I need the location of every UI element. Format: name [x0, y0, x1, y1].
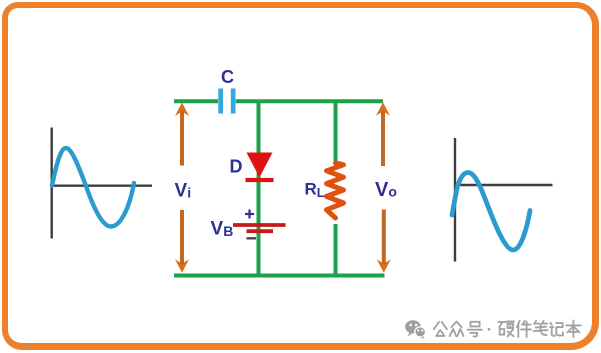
output waveform axes — [454, 138, 553, 262]
svg-text:Vi: Vi — [175, 181, 192, 202]
arrow Vo down — [377, 210, 391, 273]
watermark text — [434, 320, 581, 337]
svg-text:VB: VB — [211, 218, 234, 239]
watermark wechat icon — [405, 320, 426, 339]
input waveform axes — [51, 128, 153, 239]
wire top-right segment — [236, 99, 383, 103]
svg-text:D: D — [230, 157, 243, 177]
battery plus polarity mark — [245, 210, 254, 219]
arrow Vi down — [175, 210, 189, 273]
arrow Vi up — [175, 103, 189, 166]
output waveform — [452, 173, 530, 251]
wire diode-battery branch — [257, 101, 261, 277]
wire resistor branch bottom — [334, 224, 338, 277]
svg-text:Vo: Vo — [375, 179, 397, 201]
capacitor C — [218, 89, 235, 114]
arrow Vo up — [376, 102, 390, 166]
wire bottom — [174, 274, 385, 278]
wire top-left segment — [174, 99, 218, 103]
wire resistor branch top — [334, 101, 338, 161]
diode D — [246, 153, 274, 181]
battery VB — [233, 225, 286, 231]
svg-text:RL: RL — [305, 180, 325, 200]
battery minus polarity mark — [247, 237, 257, 239]
svg-text:C: C — [221, 67, 234, 87]
resistor RL — [327, 163, 344, 218]
input waveform — [52, 148, 134, 227]
